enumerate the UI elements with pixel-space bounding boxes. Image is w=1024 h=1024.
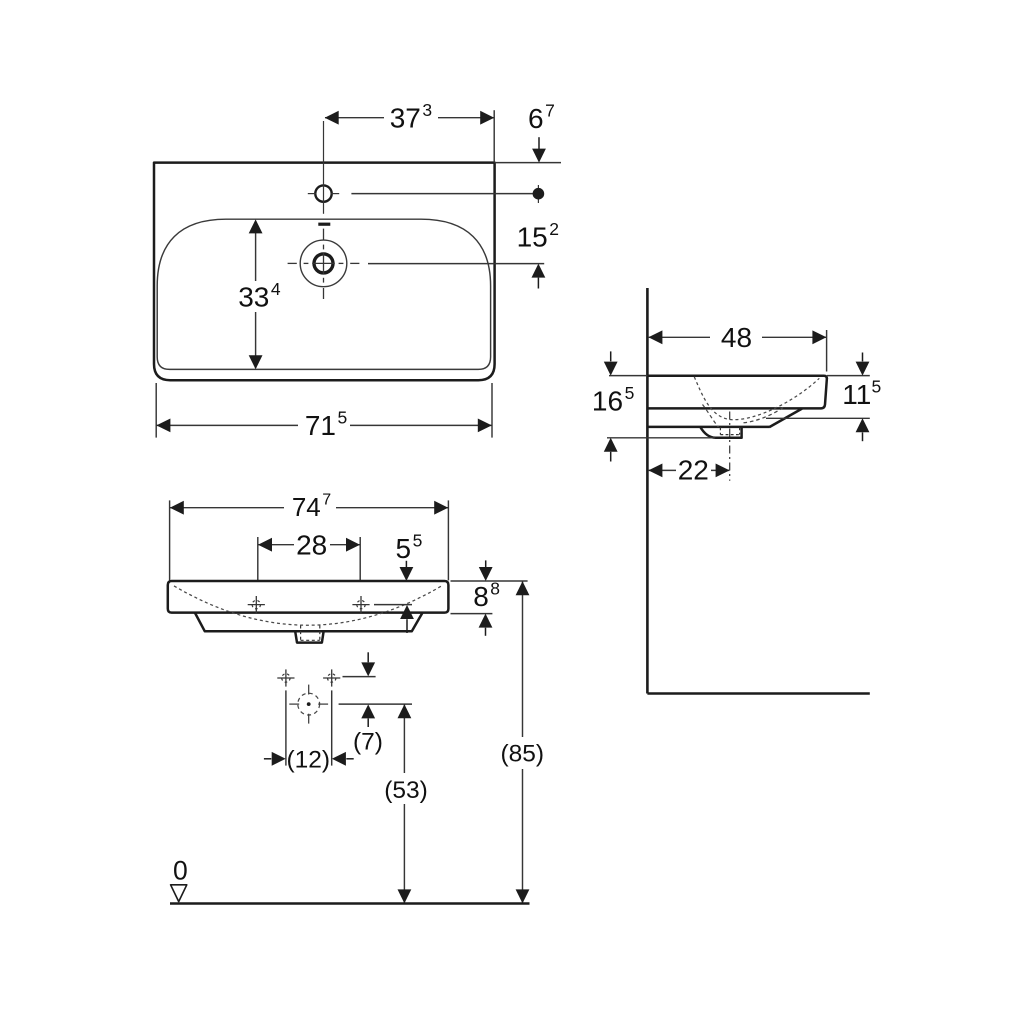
front view: left tap hole mark [248, 604, 265, 606]
svg-text:3: 3 [422, 100, 432, 120]
dimension 71-5 extensions [155, 383, 157, 438]
svg-text:(85): (85) [501, 741, 545, 768]
svg-text:5: 5 [625, 383, 635, 403]
dimension 8-8 up arrow [479, 614, 493, 628]
front view: dimension 5-5 arrow [405, 561, 407, 568]
dimension (85) vertical line [522, 581, 524, 737]
svg-text:0: 0 [173, 856, 188, 886]
side view: wall line [646, 288, 649, 694]
plan view: drain crosshair [288, 262, 297, 264]
svg-text:4: 4 [271, 279, 281, 299]
svg-text:(53): (53) [384, 777, 428, 804]
floor line [170, 902, 530, 905]
dimension 33-4 line [255, 222, 257, 281]
side view: deck top right extension [827, 375, 870, 377]
fixing holes: down arrow [367, 652, 369, 662]
svg-text:(12): (12) [287, 747, 331, 774]
dimension 71-5 line [156, 424, 298, 426]
svg-text:33: 33 [238, 281, 269, 312]
side view: dimension 16-5 up arrow [604, 438, 618, 452]
drain trap dashed circle [298, 693, 320, 715]
fixing holes: upper reference line [343, 676, 376, 678]
fixing hole left mark [277, 677, 294, 679]
svg-text:2: 2 [549, 219, 559, 239]
side view: drain axis dash-dot line [729, 412, 731, 481]
dimension (53) arrows [398, 704, 412, 718]
front view: dimension 74-7 line [170, 507, 284, 509]
svg-text:5: 5 [872, 377, 882, 397]
dimension 8-8 down arrow [485, 560, 487, 567]
svg-text:6: 6 [528, 103, 544, 134]
front view: interior bowl dashed curve [174, 586, 442, 625]
svg-text:5: 5 [337, 408, 347, 428]
side view: under-body bottom line [647, 426, 769, 429]
front view: tap axis reference line [374, 604, 412, 606]
front view: tap axis up arrow [400, 605, 414, 619]
dimension 6-7 arrow [538, 137, 540, 149]
svg-text:11: 11 [842, 379, 871, 410]
dimension 15-2 arrow [532, 264, 546, 278]
side view: dimension 48 line [648, 336, 710, 338]
side view: drain boss [700, 427, 741, 438]
side view: dimension 48 right extension [826, 330, 828, 372]
side view: under-body slant to front [769, 409, 802, 428]
dimension 8-8 top extension [451, 580, 528, 582]
svg-text:22: 22 [678, 455, 709, 486]
front view: right tap hole mark [352, 604, 369, 606]
plan view: drain outer circle [300, 240, 347, 287]
side view: deck top left extension [609, 375, 647, 377]
front view: dimension 28 extensions [257, 537, 259, 599]
side view: front edge [821, 378, 827, 408]
dimension 37-3 arrows [325, 111, 339, 125]
dimension (53) vertical line [403, 704, 405, 773]
side view: bowl bottom dashed curve left [703, 405, 719, 428]
front view: drain boss [295, 631, 323, 642]
svg-text:8: 8 [490, 579, 500, 599]
svg-text:(7): (7) [353, 729, 383, 756]
side view: dimension 48 arrows [648, 330, 662, 344]
svg-text:5: 5 [413, 531, 423, 551]
floor datum triangle [171, 885, 187, 902]
svg-text:8: 8 [473, 581, 489, 612]
dimension 8-8 bottom extension [451, 613, 493, 615]
front view: dimension 28 line [258, 544, 294, 546]
front view: dimension 28 arrows [258, 538, 272, 552]
plan view: drain inner circle [314, 254, 333, 273]
dimension (12) right arrow [332, 752, 346, 766]
front view: drain dashed outline [300, 626, 302, 641]
plan view: overflow slot mark [318, 223, 330, 226]
svg-text:7: 7 [545, 101, 555, 121]
plan view: washbasin outer rim [154, 163, 495, 381]
side view: interior bowl dashed curve [694, 377, 819, 420]
plan view: tap hole crosshair [323, 121, 325, 214]
dimension 37-3 line [325, 117, 384, 119]
front view: dimension 74-7 arrows [170, 501, 184, 515]
front view: basin deck band [168, 581, 449, 613]
svg-text:48: 48 [721, 322, 752, 353]
front view: basin lower body [195, 613, 422, 631]
drain trap crosshair [289, 703, 299, 705]
svg-text:74: 74 [292, 492, 321, 522]
fixing hole extension lines [285, 690, 287, 765]
svg-text:5: 5 [396, 533, 412, 564]
side view: dimension 11-5 up arrow [856, 418, 870, 432]
dimension (12) left arrow [264, 758, 271, 760]
drain axis line right [368, 263, 544, 265]
reference dot [537, 185, 539, 203]
side view: dimension 11-5 down arrow [862, 353, 864, 362]
drain axis reference line [339, 703, 412, 705]
side view: deck top line [647, 376, 827, 379]
side view: dimension 11-5 extension line [766, 417, 870, 419]
fixing hole right mark [323, 677, 340, 679]
svg-text:16: 16 [592, 386, 623, 417]
dimension 33-4 arrows [249, 219, 263, 233]
front view: dimension 74-7 extensions [169, 500, 171, 580]
dimension (85) arrows [516, 581, 530, 595]
svg-text:37: 37 [390, 103, 421, 134]
side view: dimension 22 arrows [648, 464, 662, 478]
side view: bowl bottom dashed curve right [744, 407, 784, 423]
dimension 71-5 arrows [156, 419, 170, 433]
svg-text:28: 28 [296, 529, 327, 560]
plan view: inner basin outline [157, 219, 490, 369]
side view: dimension 22 line [648, 469, 676, 471]
svg-text:7: 7 [322, 491, 331, 508]
svg-text:15: 15 [517, 221, 548, 252]
deck top edge right extension [495, 162, 561, 164]
side view: dimension 16-5 bottom extension [607, 437, 715, 439]
side view: wall base line [647, 692, 869, 695]
dimension 37-3 right extension [493, 110, 495, 162]
side view: dimension 16-5 down arrow [610, 351, 612, 361]
side view: apron bottom line [647, 407, 821, 410]
svg-text:71: 71 [305, 410, 336, 441]
plan view: tap hole [315, 185, 331, 201]
tap axis line to reference dot [351, 193, 533, 195]
dimension (7) arrow [361, 704, 375, 718]
side view: trap dashed details [719, 428, 721, 435]
